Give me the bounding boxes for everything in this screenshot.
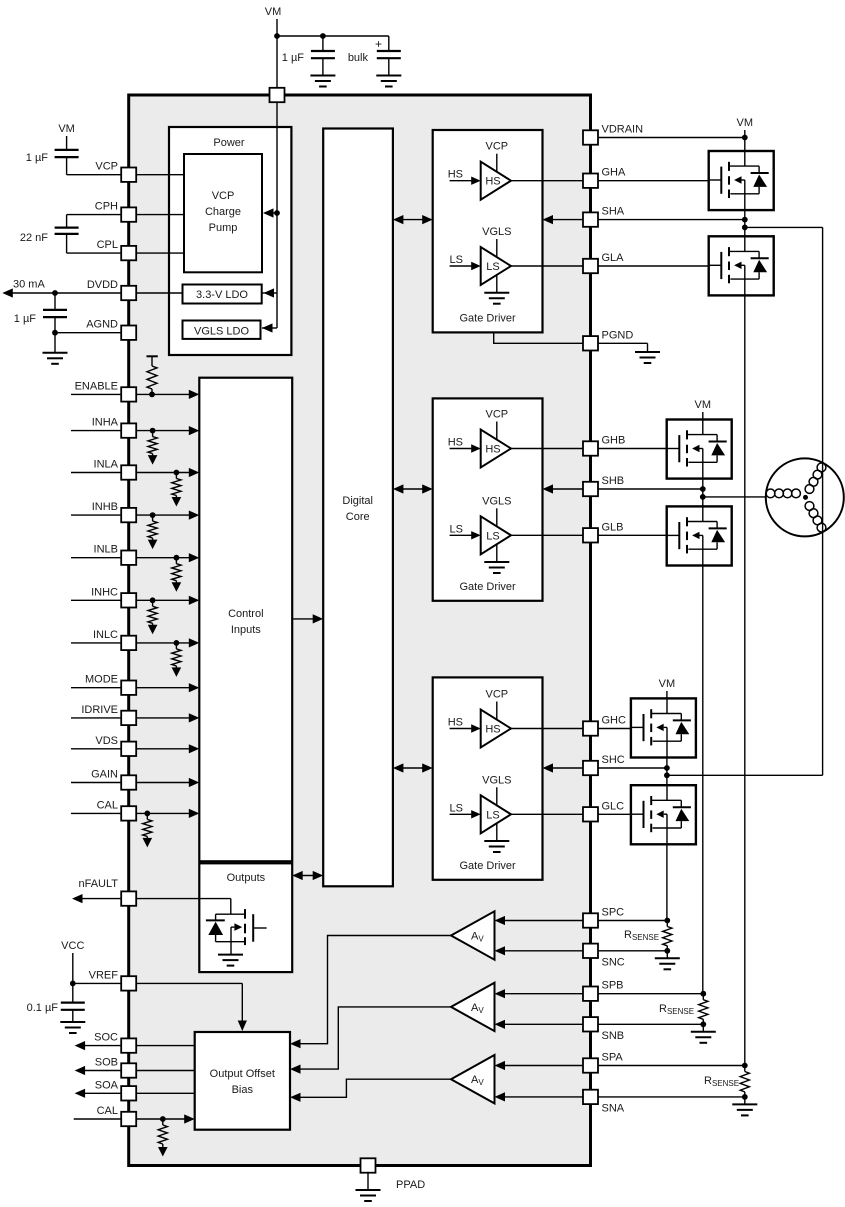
pin GHC xyxy=(583,715,626,736)
svg-text:LS: LS xyxy=(450,523,463,535)
arrow INLB into Control Inputs xyxy=(189,553,200,562)
wire amp A out xyxy=(290,1079,451,1102)
op-amp AV C xyxy=(451,911,495,959)
junction VM xyxy=(274,33,280,39)
svg-text:VCP: VCP xyxy=(95,161,118,173)
wire GLA xyxy=(511,265,583,267)
wire source A down xyxy=(744,295,746,1065)
junction INLB pulldown xyxy=(174,555,180,561)
arrow VREF into OOB xyxy=(238,1021,247,1032)
block 3.3-V LDO xyxy=(183,285,262,304)
pin MODE xyxy=(85,674,136,695)
junction phase A motor xyxy=(742,225,748,231)
wire VM internal xyxy=(262,102,277,328)
pin SHC xyxy=(583,754,625,775)
wire CPH xyxy=(67,215,184,228)
svg-text:CPH: CPH xyxy=(95,201,118,213)
ground PPAD xyxy=(356,1173,381,1201)
pin SNC xyxy=(583,944,625,969)
pin INLC xyxy=(93,629,136,650)
wire SHC xyxy=(598,767,667,769)
svg-text:GLC: GLC xyxy=(602,800,625,812)
svg-text:INHB: INHB xyxy=(92,501,118,513)
capacitor 1 uF DVDD xyxy=(14,293,67,333)
capacitor bulk xyxy=(348,36,401,76)
wire CAL xyxy=(71,812,195,814)
svg-text:VM: VM xyxy=(737,117,754,129)
arrow into charge pump xyxy=(263,208,274,217)
svg-text:VDS: VDS xyxy=(95,735,118,747)
resistor CAL bottom pull-down xyxy=(158,1119,167,1147)
pin SNA xyxy=(583,1090,625,1115)
wire VDS xyxy=(71,748,195,750)
wire GLA gate xyxy=(598,265,721,267)
pin ENABLE xyxy=(75,380,137,401)
pin PPAD xyxy=(361,1158,426,1191)
wire VM rail xyxy=(277,35,389,37)
svg-text:DVDD: DVDD xyxy=(87,279,118,291)
svg-text:HS: HS xyxy=(485,444,500,456)
pin SOA xyxy=(95,1079,136,1100)
wire VCP xyxy=(67,174,184,176)
arrow SOA out xyxy=(75,1089,86,1098)
svg-text:LS: LS xyxy=(450,254,463,266)
block Gate Driver A xyxy=(433,130,543,332)
arrow into VGLS LDO xyxy=(262,323,273,332)
svg-text:VM: VM xyxy=(58,123,75,135)
pin SPB xyxy=(583,980,624,1001)
wire SNB xyxy=(495,1020,704,1029)
node VM left xyxy=(58,123,75,150)
junction ENABLE pullup xyxy=(149,392,155,398)
svg-text:INLB: INLB xyxy=(94,544,118,556)
resistor RSENSE C xyxy=(624,918,680,970)
svg-text:CPL: CPL xyxy=(97,239,118,251)
wire phase A to motor xyxy=(745,227,823,775)
arrow VDS into Control Inputs xyxy=(189,744,200,753)
resistor INHB pull-down xyxy=(148,515,157,540)
arrow DVDD out xyxy=(2,288,13,297)
junction SHC xyxy=(664,765,670,771)
svg-text:3.3-V LDO: 3.3-V LDO xyxy=(196,289,248,301)
junction cap1 xyxy=(320,33,326,39)
junction phase B motor xyxy=(700,494,706,500)
pin SOC xyxy=(94,1032,136,1053)
junction INLC pulldown xyxy=(174,640,180,646)
wire GHB xyxy=(511,448,583,450)
wire source C down xyxy=(666,844,668,920)
svg-text:VCP: VCP xyxy=(212,190,235,202)
svg-text:RSENSE: RSENSE xyxy=(704,1075,739,1088)
amplifier LS C xyxy=(450,774,512,852)
arrow core-driver C xyxy=(393,763,433,772)
wire SPC xyxy=(495,916,668,925)
svg-text:VGLS: VGLS xyxy=(482,495,511,507)
svg-text:Power: Power xyxy=(213,137,245,149)
wire GHC xyxy=(511,728,583,730)
svg-text:LS: LS xyxy=(486,530,499,542)
wire GHC gate xyxy=(598,728,643,730)
pin CPL xyxy=(97,239,137,260)
resistor CAL pull-down xyxy=(143,813,152,838)
svg-text:AGND: AGND xyxy=(86,319,118,331)
junction SHB xyxy=(700,486,706,492)
svg-text:IDRIVE: IDRIVE xyxy=(81,704,118,716)
pin SPA xyxy=(583,1052,623,1073)
svg-text:MODE: MODE xyxy=(85,674,118,686)
resistor ENABLE pull-up xyxy=(147,356,158,394)
svg-text:VM: VM xyxy=(659,678,676,690)
wire nFAULT xyxy=(82,898,231,900)
pin GLA xyxy=(583,252,624,273)
block Power xyxy=(169,127,291,355)
svg-text:HS: HS xyxy=(448,717,463,729)
wire AGND xyxy=(55,332,121,334)
wire DVDD xyxy=(12,279,183,294)
wire phase A node xyxy=(744,210,746,236)
wire phase C node xyxy=(666,758,668,787)
wire SNA xyxy=(495,1092,745,1101)
block Control Inputs xyxy=(199,378,292,862)
svg-text:Pump: Pump xyxy=(209,222,238,234)
pin AGND xyxy=(86,319,136,340)
svg-text:22 nF: 22 nF xyxy=(20,232,48,244)
node VM phase A xyxy=(737,117,754,151)
ground cap1 xyxy=(310,76,335,87)
pin VM xyxy=(270,88,285,102)
wire INHA xyxy=(71,430,195,432)
chip body DRV8353 xyxy=(129,95,591,1166)
junction CAL bottom xyxy=(160,1116,166,1122)
wire phase B node xyxy=(702,479,704,507)
arrow INHB pulldown xyxy=(148,540,158,550)
pin GLB xyxy=(583,521,624,542)
wire SOB xyxy=(84,1070,195,1072)
wire SOA xyxy=(84,1092,195,1094)
junction INLA pulldown xyxy=(174,470,180,476)
arrow INHC pulldown xyxy=(148,625,158,635)
wire phase C to motor xyxy=(667,774,823,776)
svg-text:VDRAIN: VDRAIN xyxy=(602,124,644,136)
wire GLC gate xyxy=(598,813,643,815)
node VM phase C xyxy=(659,678,676,698)
wire SHB xyxy=(543,484,584,493)
arrow IDRIVE into Control Inputs xyxy=(189,713,200,722)
svg-text:SHB: SHB xyxy=(602,475,625,487)
wire CAL bottom xyxy=(74,1118,189,1120)
arrow CAL bottom pulldown xyxy=(158,1147,168,1157)
arrow INHA into Control Inputs xyxy=(189,426,200,435)
svg-text:GHB: GHB xyxy=(602,435,626,447)
resistor INHC pull-down xyxy=(148,600,157,625)
arrow INLA pulldown xyxy=(172,497,182,507)
svg-text:Digital: Digital xyxy=(342,495,373,507)
svg-text:SNA: SNA xyxy=(602,1102,625,1114)
svg-text:SHC: SHC xyxy=(602,754,625,766)
wire INLA xyxy=(71,472,195,474)
wire SHA xyxy=(598,219,745,221)
svg-text:GHC: GHC xyxy=(602,715,627,727)
svg-text:1 µF: 1 µF xyxy=(14,313,37,325)
transistor high-side B xyxy=(667,420,732,479)
junction INHB pulldown xyxy=(150,512,156,518)
wire SNC xyxy=(495,946,668,955)
transistor high-side A xyxy=(709,151,774,210)
svg-text:VM: VM xyxy=(265,6,282,18)
wire amp B out xyxy=(290,1007,451,1074)
pin DVDD xyxy=(87,279,136,300)
svg-text:Bias: Bias xyxy=(232,1084,254,1096)
arrow core-driver B xyxy=(393,484,433,493)
wire SHB xyxy=(598,488,703,490)
svg-text:bulk: bulk xyxy=(348,52,369,64)
ground AGND xyxy=(43,333,68,364)
block Gate Driver C xyxy=(433,677,543,879)
wire INHC xyxy=(71,599,195,601)
svg-text:LS: LS xyxy=(450,802,463,814)
svg-text:Control: Control xyxy=(228,608,263,620)
block Gate Driver B xyxy=(433,398,543,600)
junction VCC xyxy=(70,981,76,987)
arrow INLA into Control Inputs xyxy=(189,468,200,477)
svg-text:Output Offset: Output Offset xyxy=(210,1068,275,1080)
arrow CAL pulldown xyxy=(143,838,153,848)
svg-text:INLA: INLA xyxy=(94,459,119,471)
svg-text:SHA: SHA xyxy=(602,206,625,218)
pin SNB xyxy=(583,1017,624,1042)
pin GHA xyxy=(583,167,626,188)
op-amp AV B xyxy=(451,983,495,1031)
motor BLDC xyxy=(766,458,844,536)
capacitor 0.1 uF xyxy=(27,983,85,1022)
wire SHA xyxy=(543,215,584,224)
amplifier HS C xyxy=(448,689,511,748)
capacitor 1 uF VM xyxy=(282,36,335,76)
arrow SOC out xyxy=(75,1041,86,1050)
node VCC xyxy=(61,940,84,983)
wire GLC xyxy=(511,813,583,815)
wire SPA xyxy=(495,1061,745,1070)
arrow GAIN into Control Inputs xyxy=(189,778,200,787)
svg-text:VM: VM xyxy=(695,399,712,411)
svg-text:VGLS LDO: VGLS LDO xyxy=(194,326,249,338)
svg-text:VGLS: VGLS xyxy=(482,226,511,238)
block Output Offset Bias xyxy=(195,1032,290,1130)
block Outputs xyxy=(199,863,292,972)
pin CAL bottom xyxy=(97,1105,137,1126)
ground bulk xyxy=(376,76,401,87)
arrow outputs-core xyxy=(292,871,323,880)
block VCP Charge Pump xyxy=(184,154,262,272)
pin SHB xyxy=(583,475,624,496)
transistor high-side C xyxy=(631,698,696,757)
arrow INHB into Control Inputs xyxy=(189,511,200,520)
svg-text:INHC: INHC xyxy=(91,586,118,598)
arrow control-to-core xyxy=(292,614,323,623)
node VM phase B xyxy=(695,399,712,420)
svg-text:HS: HS xyxy=(448,437,463,449)
junction INHC pulldown xyxy=(150,597,156,603)
junction VDRAIN-VM xyxy=(742,135,748,141)
wire PGND xyxy=(494,332,648,352)
svg-text:GLA: GLA xyxy=(602,252,625,264)
resistor INLB pull-down xyxy=(172,558,181,583)
pin VCP xyxy=(95,161,136,182)
svg-text:LS: LS xyxy=(486,809,499,821)
wire INHB xyxy=(71,514,195,516)
pin INHA xyxy=(92,417,136,438)
wire GHA gate xyxy=(598,180,721,182)
wire VDRAIN xyxy=(598,137,745,139)
junction VM-CP xyxy=(274,210,280,216)
svg-text:RSENSE: RSENSE xyxy=(624,929,659,942)
svg-text:HS: HS xyxy=(485,724,500,736)
junction phase C motor xyxy=(664,772,670,778)
svg-text:+: + xyxy=(375,37,382,51)
ground outputs xyxy=(218,955,243,966)
svg-text:GLB: GLB xyxy=(602,521,624,533)
svg-text:Core: Core xyxy=(346,511,370,523)
wire GLB xyxy=(511,534,583,536)
wire VREF xyxy=(73,983,243,1026)
arrow into 3.3-V LDO xyxy=(264,288,275,297)
svg-text:PGND: PGND xyxy=(602,329,634,341)
arrow INLC into Control Inputs xyxy=(189,638,200,647)
svg-text:CAL: CAL xyxy=(97,1105,118,1117)
arrow INHC into Control Inputs xyxy=(189,596,200,605)
svg-text:SPB: SPB xyxy=(602,980,624,992)
transistor nFAULT open-drain with zener xyxy=(206,899,267,955)
svg-text:1 µF: 1 µF xyxy=(282,52,305,64)
svg-text:Gate Driver: Gate Driver xyxy=(459,312,516,324)
arrow ENABLE into Control Inputs xyxy=(189,390,200,399)
pin CAL xyxy=(97,799,137,820)
svg-text:GAIN: GAIN xyxy=(91,769,118,781)
svg-text:30 mA: 30 mA xyxy=(13,279,45,291)
junction AGND xyxy=(52,330,58,336)
arrow CAL into OOB xyxy=(184,1114,195,1123)
wire SPB xyxy=(495,989,704,998)
capacitor 1 uF VCP xyxy=(26,150,79,175)
amplifier LS A xyxy=(450,226,512,304)
pin INLA xyxy=(94,459,137,480)
arrow nFAULT out xyxy=(72,894,83,903)
pin PGND xyxy=(583,329,633,350)
svg-text:HS: HS xyxy=(485,176,500,188)
wire GHB gate xyxy=(598,448,679,450)
pin SOB xyxy=(95,1057,136,1078)
svg-text:SNB: SNB xyxy=(602,1030,625,1042)
wire GLB gate xyxy=(598,534,679,536)
svg-text:1 µF: 1 µF xyxy=(26,152,49,164)
pin VDS xyxy=(95,735,136,756)
svg-text:PPAD: PPAD xyxy=(396,1179,425,1191)
transistor low-side A xyxy=(709,236,774,295)
wire GHA xyxy=(511,180,583,182)
pin IDRIVE xyxy=(81,704,136,725)
arrow CAL into Control Inputs xyxy=(189,809,200,818)
wire CPL xyxy=(67,234,184,253)
wire phase B to motor xyxy=(703,496,767,498)
svg-text:SOA: SOA xyxy=(95,1079,119,1091)
wire source B down xyxy=(702,566,704,994)
svg-text:VCP: VCP xyxy=(485,141,508,153)
svg-text:ENABLE: ENABLE xyxy=(75,380,118,392)
svg-text:RSENSE: RSENSE xyxy=(659,1003,694,1016)
svg-text:VREF: VREF xyxy=(89,969,119,981)
wire ENABLE xyxy=(71,393,195,395)
pin INHB xyxy=(92,501,136,522)
capacitor 22 nF xyxy=(20,228,79,244)
svg-text:nFAULT: nFAULT xyxy=(78,878,118,890)
svg-text:Inputs: Inputs xyxy=(231,624,261,636)
arrow MODE into Control Inputs xyxy=(189,683,200,692)
svg-text:VCP: VCP xyxy=(485,689,508,701)
pin GHB xyxy=(583,435,625,456)
node VM top xyxy=(265,6,282,88)
resistor INLA pull-down xyxy=(172,473,181,498)
transistor low-side C xyxy=(631,785,696,844)
op-amp AV A xyxy=(451,1055,495,1103)
wire SHC xyxy=(543,763,584,772)
wire MODE xyxy=(71,687,195,689)
svg-text:INLC: INLC xyxy=(93,629,118,641)
pin GLC xyxy=(583,800,624,821)
svg-text:Outputs: Outputs xyxy=(227,872,266,884)
block Digital Core xyxy=(323,129,393,887)
pin INHC xyxy=(91,586,136,607)
pin SPC xyxy=(583,907,624,928)
arrow INLC pulldown xyxy=(172,667,182,677)
wire amp C out xyxy=(290,936,451,1049)
svg-text:SPA: SPA xyxy=(602,1052,624,1064)
junction SHA xyxy=(742,217,748,223)
arrow INLB pulldown xyxy=(172,582,182,592)
svg-text:INHA: INHA xyxy=(92,417,119,429)
amplifier HS B xyxy=(448,409,511,468)
svg-text:Gate Driver: Gate Driver xyxy=(459,581,516,593)
arrow INHA pulldown xyxy=(148,455,158,465)
svg-text:Charge: Charge xyxy=(205,206,241,218)
block VGLS LDO xyxy=(183,321,261,339)
amplifier LS B xyxy=(450,495,512,573)
junction INHA pulldown xyxy=(150,428,156,434)
pin CPH xyxy=(95,201,136,222)
svg-text:Gate Driver: Gate Driver xyxy=(459,860,516,872)
svg-text:LS: LS xyxy=(486,261,499,273)
svg-text:VGLS: VGLS xyxy=(482,774,511,786)
transistor low-side B xyxy=(667,506,732,565)
svg-text:CAL: CAL xyxy=(97,799,118,811)
svg-text:SOC: SOC xyxy=(94,1032,118,1044)
svg-text:SNC: SNC xyxy=(602,956,625,968)
arrow SOB out xyxy=(75,1066,86,1075)
wire SOC xyxy=(84,1045,195,1047)
pin GAIN xyxy=(91,769,136,790)
arrow core-driver A xyxy=(393,215,433,224)
pin INLB xyxy=(94,544,137,565)
svg-text:VCP: VCP xyxy=(485,409,508,421)
wire IDRIVE xyxy=(71,717,195,719)
svg-text:0.1 µF: 0.1 µF xyxy=(27,1002,59,1014)
resistor INHA pull-down xyxy=(148,431,157,456)
pin VDRAIN xyxy=(583,124,643,145)
svg-text:HS: HS xyxy=(448,169,463,181)
pin SHA xyxy=(583,206,625,227)
wire INLB xyxy=(71,557,195,559)
pin nFAULT xyxy=(78,878,136,906)
pin VREF xyxy=(89,969,137,990)
